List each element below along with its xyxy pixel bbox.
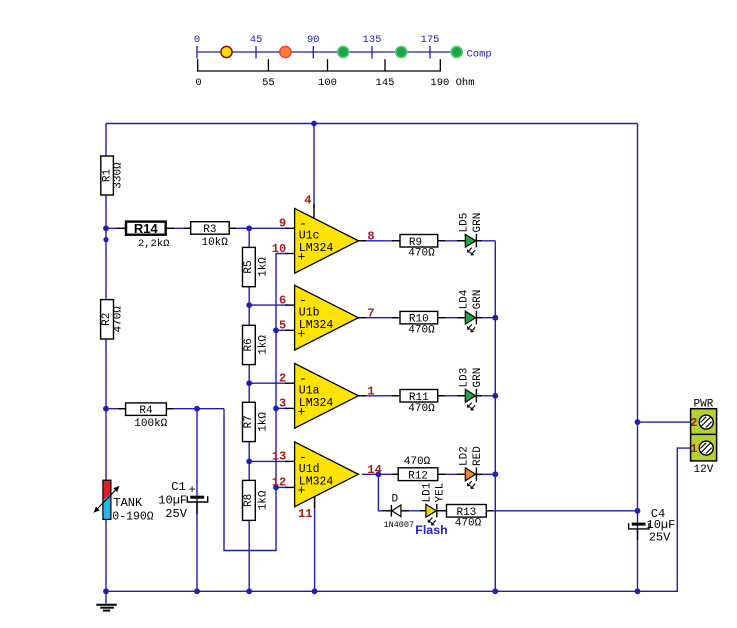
node R3 ladder top [246,225,252,231]
svg-text:5: 5 [279,319,286,333]
scale tick 175 [429,46,431,59]
svg-text:10: 10 [272,242,286,256]
wire U1a output row [362,395,495,397]
op-amp U1b [279,285,375,350]
svg-text:100: 100 [318,77,337,89]
svg-text:R7: R7 [243,415,255,428]
wire U1b pin5 [276,329,288,331]
svg-text:+: + [189,483,196,497]
svg-text:13: 13 [272,450,286,464]
svg-text:90: 90 [307,34,320,46]
op-amp U1c [272,193,375,273]
wire left vertical [105,124,107,592]
svg-text:11: 11 [298,507,312,521]
node pin11 rail [312,588,318,594]
resistor R14 [117,221,174,250]
node plus pin3 [273,406,279,412]
node left stray [103,237,108,242]
node R4 C1 [194,406,200,412]
scale tick 0 [196,46,198,59]
op-amp U1d [272,442,382,521]
svg-text:4: 4 [304,193,311,207]
svg-text:1: 1 [367,385,374,399]
wire U1d pin11 [314,497,316,591]
svg-text:100kΩ: 100kΩ [134,418,167,430]
svg-text:0: 0 [194,34,200,46]
svg-text:10µF: 10µF [158,493,187,507]
ground [96,605,116,611]
svg-text:U1a: U1a [299,385,320,398]
svg-text:10kΩ: 10kΩ [201,237,228,249]
svg-text:9: 9 [279,217,286,231]
svg-text:1: 1 [690,442,697,456]
wire LD1 to R13 [438,510,447,512]
svg-text:R8: R8 [243,494,255,507]
green dot 1 [338,46,349,57]
svg-text:R5: R5 [243,260,255,273]
wire C1 branch [196,409,198,592]
resistor R7 [243,402,270,441]
node bus rail [635,588,641,594]
svg-text:GRN: GRN [472,213,484,233]
ohm bracket [198,59,441,71]
resistor R4 [118,403,173,430]
capacitor C4 [629,507,676,544]
wire top bus [106,123,638,125]
node left R4 [103,406,109,412]
node U1d out flash [376,471,382,477]
svg-text:45: 45 [250,34,263,46]
svg-text:GRN: GRN [472,368,484,388]
wire ground stub [105,591,107,603]
wire diode to LD1 [402,510,427,512]
svg-text:C1: C1 [171,480,185,494]
PARTS [94,156,717,611]
resistor R9 [392,235,445,260]
svg-text:8: 8 [367,230,374,244]
svg-text:470Ω: 470Ω [113,306,125,333]
svg-text:LD4: LD4 [459,289,471,309]
scale tick 90 [312,46,314,59]
svg-text:R4: R4 [139,405,153,417]
svg-text:0-190Ω: 0-190Ω [112,511,154,524]
wire U1a pin3 [276,407,288,409]
green dot 3 [451,46,462,57]
wire R4 row [106,408,224,410]
svg-text:7: 7 [367,306,374,320]
wire PWR pin2 [638,421,691,423]
svg-text:R12: R12 [408,470,428,482]
svg-text:1N4007: 1N4007 [384,520,415,530]
svg-text:LD3: LD3 [459,368,471,388]
node plus pin12 [273,485,279,491]
svg-text:R14: R14 [134,221,159,236]
node plus pin5 [273,327,279,333]
svg-text:1kΩ: 1kΩ [257,490,269,510]
svg-text:GRN: GRN [472,290,484,310]
resistor R1 [101,156,125,195]
svg-text:2: 2 [690,416,697,430]
svg-text:2,2kΩ: 2,2kΩ [138,238,170,250]
resistor R8 [243,480,270,520]
svg-text:+: + [298,483,306,498]
svg-text:470Ω: 470Ω [455,518,482,530]
svg-text:2: 2 [279,372,286,386]
node C1 rail [194,588,200,594]
svg-text:25V: 25V [649,530,671,544]
svg-text:470Ω: 470Ω [408,248,435,260]
resistor R5 [243,247,270,286]
wire R14 row [106,227,288,229]
resistor R13 [440,505,493,530]
scale axis line [197,51,457,53]
SCALE [194,34,492,89]
svg-text:14: 14 [367,463,381,477]
orange dot [280,46,291,57]
svg-text:0: 0 [195,77,201,89]
svg-text:55: 55 [262,77,275,89]
op-amp U1a [279,363,375,428]
node bus pin2 [635,419,641,425]
svg-text:3: 3 [279,397,286,411]
resistor R2 [101,300,125,339]
svg-text:470Ω: 470Ω [408,403,435,415]
wire U1a pin2 [249,382,288,384]
svg-text:U1d: U1d [299,463,320,476]
node LED bus rail [492,588,498,594]
svg-text:R6: R6 [243,338,255,351]
node left R14 [103,225,109,231]
resistor R12 [392,456,445,483]
wire U1d output row [362,473,495,475]
svg-text:PWR: PWR [694,398,714,410]
scale tick 45 [255,46,257,59]
svg-text:175: 175 [421,34,440,46]
diode D 1N4007 [383,494,415,531]
svg-text:LD5: LD5 [459,213,471,233]
svg-text:330Ω: 330Ω [113,162,125,189]
node ladder rail [246,588,252,594]
svg-text:RED: RED [472,446,484,466]
svg-text:YEL: YEL [435,483,447,503]
svg-text:Comp: Comp [467,49,492,61]
svg-text:LD1: LD1 [421,482,433,502]
led LD5 GRN [457,213,484,255]
wire plus input line [224,254,288,551]
wire U1d pin12 [276,486,288,488]
wire U1d pin13 [249,460,288,462]
node ladder pin13 [246,459,252,465]
wire R13 to bus [486,510,637,512]
node LED bus LD3 [492,393,498,399]
svg-text:135: 135 [363,34,382,46]
tank sensor TANK 0-190 [94,480,154,523]
led LD2 RED [457,446,484,489]
svg-text:470Ω: 470Ω [408,325,435,337]
wire flash branch [378,474,390,511]
resistor R11 [392,390,445,415]
yellow dot [221,46,232,57]
svg-text:LD2: LD2 [459,446,471,466]
led LD4 GRN [457,289,484,332]
capacitor C1 [158,480,207,521]
svg-text:U1b: U1b [299,306,320,319]
wire U1b output row [362,317,495,319]
resistor R6 [243,325,270,364]
svg-text:+: + [298,405,306,420]
wire U1c pin4 [313,124,315,209]
scale tick 135 [371,46,373,59]
node ladder pin6 [246,302,252,308]
svg-text:12V: 12V [694,464,714,476]
node ladder pin2 [246,380,252,386]
svg-text:145: 145 [376,77,395,89]
resistor R3 [184,222,236,250]
green dot 2 [396,46,407,57]
node left rail [103,588,109,594]
wire U1c output row [362,240,495,242]
svg-text:R2: R2 [101,313,113,326]
svg-text:1kΩ: 1kΩ [257,335,269,355]
svg-text:470Ω: 470Ω [404,456,431,468]
node LED bus LD2 [492,471,498,477]
node top bus / pin4 [311,121,317,127]
led LD1 YEL [420,482,447,525]
svg-text:D: D [392,494,399,506]
node bus R13 [635,508,641,514]
svg-text:+: + [298,327,306,342]
svg-text:12: 12 [272,476,286,490]
wire U1b pin6 [249,304,288,306]
resistor R10 [392,311,445,336]
wire bottom rail to PWR pin1 [106,448,691,591]
svg-text:R1: R1 [101,169,113,183]
svg-text:25V: 25V [165,507,187,521]
wire ladder vertical [248,228,250,591]
svg-text:1kΩ: 1kΩ [257,412,269,432]
connector PWR 12V [690,398,716,476]
svg-text:+: + [298,250,306,265]
node LED bus LD4 [492,315,498,321]
svg-text:U1c: U1c [299,230,320,243]
svg-text:6: 6 [279,293,286,307]
svg-text:Flash: Flash [415,523,447,537]
svg-text:1kΩ: 1kΩ [257,257,269,277]
led LD3 GRN [457,368,484,410]
svg-text:TANK: TANK [113,496,143,510]
svg-text:190 Ohm: 190 Ohm [430,77,474,89]
wire LED bus [494,241,496,592]
wire right bus vertical [637,124,639,592]
svg-text:R3: R3 [203,224,216,236]
